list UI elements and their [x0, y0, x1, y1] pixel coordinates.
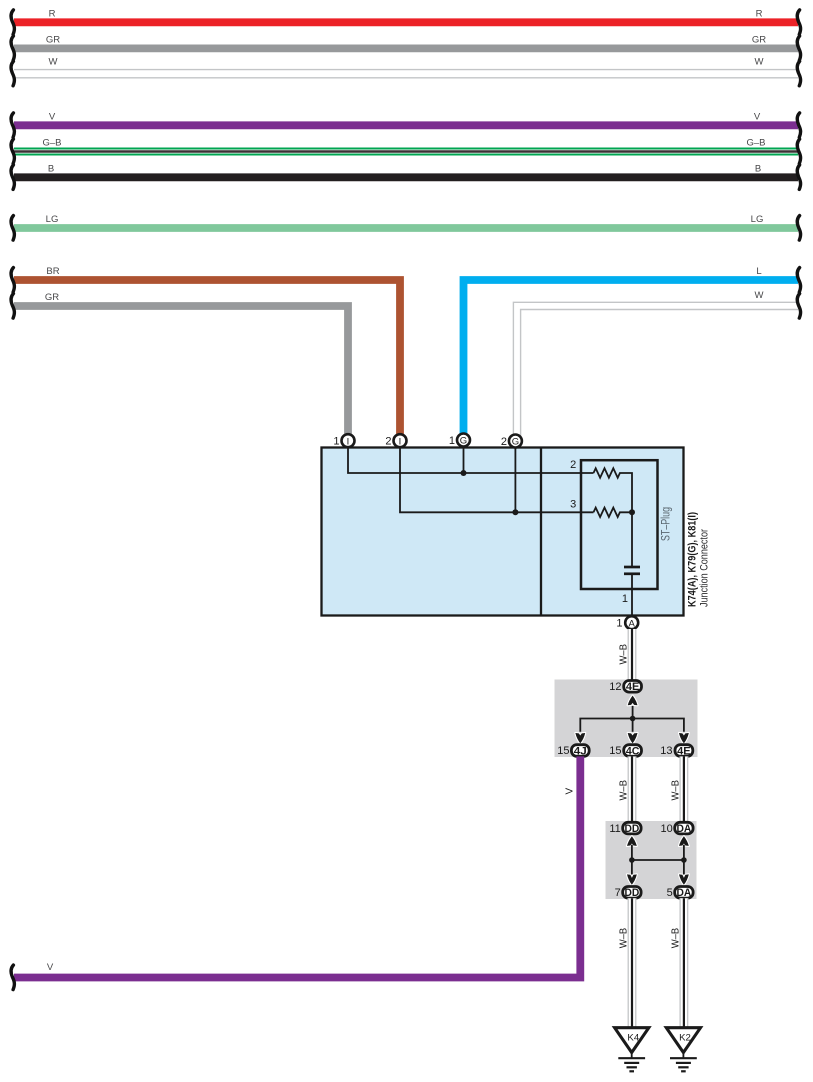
wire DD branch — [631, 845, 633, 875]
pin 1 connector I — [333, 434, 354, 447]
wire G-B — [11, 138, 801, 164]
svg-text:13: 13 — [660, 745, 672, 757]
svg-text:G–B: G–B — [42, 138, 61, 149]
wire BR — [11, 266, 400, 436]
wire V from 4J to bottom left — [11, 756, 580, 989]
node junction row2 — [461, 470, 467, 476]
connector 15 4J — [557, 745, 589, 758]
capacitor — [624, 567, 640, 574]
svg-text:A: A — [629, 618, 636, 629]
wire pin2G down — [514, 448, 516, 513]
wire LG — [11, 214, 801, 240]
svg-text:GR: GR — [45, 292, 59, 303]
svg-text:1: 1 — [616, 618, 622, 630]
arrow down to 4C — [628, 733, 638, 743]
svg-text:G: G — [512, 437, 519, 448]
connector 5 DA — [667, 887, 693, 900]
svg-text:V: V — [47, 962, 54, 973]
svg-text:11: 11 — [609, 823, 620, 835]
svg-text:ST–Plug: ST–Plug — [661, 507, 673, 541]
arrow up into 4E — [628, 696, 638, 706]
svg-text:DD: DD — [625, 823, 640, 835]
svg-text:12: 12 — [609, 681, 621, 693]
node junction resistors — [629, 509, 635, 515]
wire DA branch — [683, 845, 685, 875]
svg-text:2: 2 — [501, 436, 507, 448]
connector 7 DD — [615, 887, 641, 900]
svg-text:G–B: G–B — [746, 138, 765, 149]
wire split bus — [580, 719, 684, 732]
svg-text:4J: 4J — [574, 745, 587, 757]
arrow down to 4E13 — [679, 733, 689, 743]
wire W-B from 13 4E to 10DA — [670, 756, 688, 822]
wire W-B from 7DD to ground K4 — [619, 898, 637, 1027]
arrow down to 5DA — [679, 874, 689, 884]
svg-text:15: 15 — [609, 745, 621, 757]
svg-text:V: V — [754, 112, 761, 123]
svg-text:W–B: W–B — [619, 927, 630, 948]
wire B — [11, 164, 801, 190]
svg-text:R: R — [756, 9, 763, 20]
connector 13 4E — [660, 745, 693, 758]
svg-text:W: W — [49, 57, 58, 68]
svg-text:K4: K4 — [627, 1033, 639, 1044]
svg-text:4E: 4E — [677, 745, 691, 757]
svg-text:DD: DD — [625, 887, 640, 899]
svg-text:B: B — [755, 164, 761, 175]
svg-text:7: 7 — [615, 887, 621, 899]
svg-text:I: I — [399, 436, 402, 447]
pin 1 connector A — [616, 616, 638, 629]
svg-text:G: G — [460, 436, 467, 447]
svg-text:W–B: W–B — [670, 927, 681, 948]
wire pin1G down — [463, 447, 465, 474]
wire W — [11, 57, 801, 86]
svg-text:K2: K2 — [679, 1033, 691, 1044]
ground K2 — [666, 1028, 700, 1072]
wire W-B from 4C to 11DD — [619, 756, 637, 822]
svg-text:2: 2 — [570, 459, 576, 471]
wire GR — [11, 35, 801, 61]
arrow up into DD — [627, 836, 637, 846]
ST-Plug inner box — [581, 460, 673, 589]
wire W 2 — [513, 290, 800, 436]
connector 10 DA — [661, 822, 694, 835]
wire split middle — [632, 719, 634, 732]
svg-text:4E: 4E — [626, 681, 640, 693]
svg-text:W: W — [755, 290, 764, 301]
svg-text:5: 5 — [667, 887, 673, 899]
arrow down to 7DD — [627, 874, 637, 884]
svg-text:3: 3 — [570, 498, 576, 510]
wire to capacitor — [631, 512, 633, 566]
wire L — [464, 266, 801, 436]
node split — [630, 716, 636, 722]
ground K4 — [615, 1028, 649, 1072]
node junction row3 — [512, 509, 518, 515]
svg-text:1: 1 — [622, 593, 628, 605]
wire W-B from 5DA to ground K2 — [670, 898, 688, 1027]
wire W-B from A to 4E — [619, 629, 637, 681]
svg-text:15: 15 — [557, 745, 569, 757]
svg-text:W: W — [755, 57, 764, 68]
svg-text:V: V — [564, 788, 575, 795]
wire cross link — [632, 859, 684, 861]
svg-text:DA: DA — [677, 887, 692, 899]
svg-text:W–B: W–B — [619, 644, 630, 665]
svg-text:L: L — [756, 266, 761, 277]
svg-text:GR: GR — [46, 35, 60, 46]
svg-text:LG: LG — [751, 214, 764, 225]
connector 11 DD — [609, 822, 641, 835]
svg-text:1: 1 — [449, 435, 455, 447]
arrow up into DA — [679, 836, 689, 846]
pin 1 connector G — [449, 434, 470, 447]
node DD link — [629, 857, 635, 863]
wire arrow to node — [632, 706, 634, 719]
relay block gray box 1 — [555, 680, 698, 758]
svg-text:2: 2 — [385, 436, 391, 448]
svg-text:R: R — [49, 9, 56, 20]
svg-text:K74(A), K79(G), K81(I): K74(A), K79(G), K81(I) — [687, 512, 699, 607]
svg-text:10: 10 — [661, 823, 673, 835]
connector 15 4C — [609, 745, 641, 758]
svg-text:BR: BR — [46, 266, 59, 277]
svg-text:I: I — [347, 436, 350, 447]
connector 12 4E — [609, 681, 641, 694]
svg-text:4C: 4C — [626, 745, 640, 757]
junction connector box K74/K79/K81 — [322, 448, 684, 616]
wire R — [11, 9, 801, 35]
wire GR 2 — [11, 292, 348, 436]
relay block gray box 2 — [606, 821, 697, 899]
pin 2 connector I — [385, 434, 406, 447]
wire V — [11, 112, 801, 138]
resistor row 2 — [594, 468, 633, 512]
svg-text:DA: DA — [677, 823, 692, 835]
svg-text:W–B: W–B — [619, 780, 630, 801]
wire pin2I to resistor row 3 — [400, 447, 594, 512]
arrow down to 4J — [575, 733, 585, 743]
svg-text:W–B: W–B — [670, 780, 681, 801]
svg-text:V: V — [49, 112, 56, 123]
svg-text:1: 1 — [333, 436, 339, 448]
svg-text:B: B — [48, 164, 54, 175]
wire pin1I to resistor row 2 — [348, 447, 594, 473]
resistor row 3 — [594, 508, 633, 517]
wire capacitor to pin 1A — [631, 575, 633, 616]
svg-text:LG: LG — [46, 214, 59, 225]
svg-text:Junction Connector: Junction Connector — [699, 529, 711, 607]
node DA link — [681, 857, 687, 863]
svg-text:GR: GR — [752, 35, 766, 46]
pin 2 connector G — [501, 435, 522, 448]
